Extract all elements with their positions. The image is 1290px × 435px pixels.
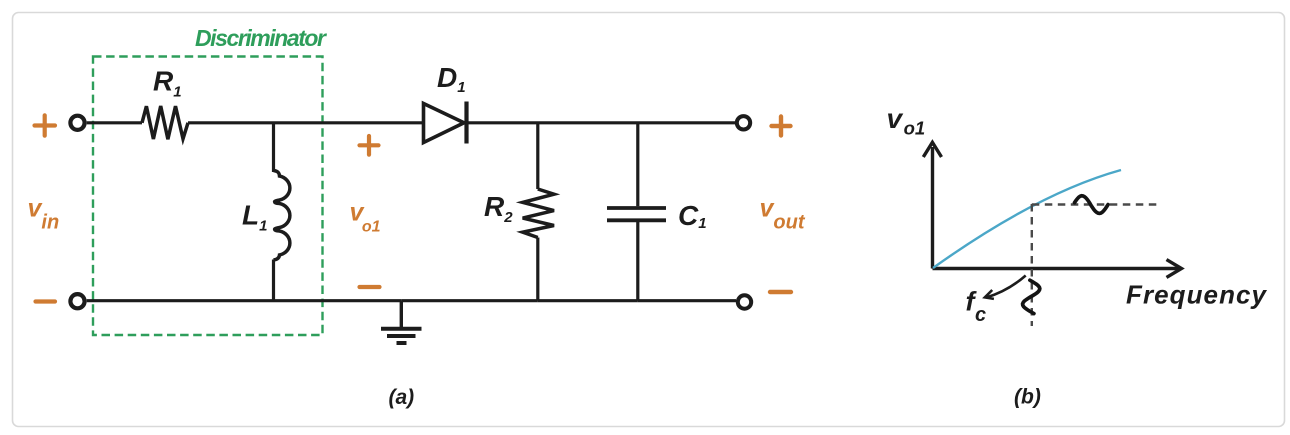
ground <box>381 301 422 343</box>
dashed guide horizontal <box>1032 203 1157 205</box>
dashed guide vertical at fc <box>1031 204 1033 326</box>
resistor R2 <box>484 123 554 301</box>
polarity - (vo1) <box>360 285 380 289</box>
input terminal node (top) <box>70 116 84 130</box>
svg-text:(b): (b) <box>1014 386 1041 409</box>
wire node C to output+ <box>638 121 736 124</box>
wire R2 bottom to C1 bottom <box>538 299 638 302</box>
wire input- to ground tap <box>87 299 402 302</box>
polarity + (vout) <box>772 117 791 136</box>
svg-text:Frequency: Frequency <box>1126 280 1268 310</box>
wire input+ to R1 <box>87 121 142 124</box>
polarity + (vo1) <box>360 136 379 155</box>
wire node A to diode anode <box>274 121 425 124</box>
graph (b) x-axis <box>933 260 1182 278</box>
output terminal node (top) <box>737 116 750 129</box>
svg-text:(a): (a) <box>389 386 415 409</box>
wire node B to node C (C1 tap) <box>538 121 638 124</box>
polarity - (vin) <box>36 299 56 303</box>
capacitor C1 <box>607 123 707 301</box>
arrow to fc <box>985 276 1026 299</box>
svg-text:Discriminator: Discriminator <box>195 25 327 51</box>
wire ground tap to R2 bottom <box>401 299 538 302</box>
polarity - (vout) <box>770 290 791 294</box>
diode D1 <box>424 62 467 144</box>
sine symbol on horizontal guide <box>1075 196 1109 214</box>
wire R1 to node A (L1 tap) <box>188 121 274 124</box>
discriminator block (dashed box) <box>93 57 323 336</box>
graph (b) y-axis <box>923 142 941 268</box>
response curve <box>933 170 1121 268</box>
inductor L1 <box>242 123 290 301</box>
polarity + (vin) <box>35 115 56 135</box>
input terminal node (bottom) <box>70 294 84 308</box>
resistor R1 <box>142 66 188 140</box>
wire C1 bottom to output- <box>638 299 736 302</box>
output terminal node (bottom) <box>738 295 751 308</box>
sine symbol at fc (vertical) <box>1023 280 1040 313</box>
wire diode cathode to node B (R2 tap) <box>467 121 539 124</box>
